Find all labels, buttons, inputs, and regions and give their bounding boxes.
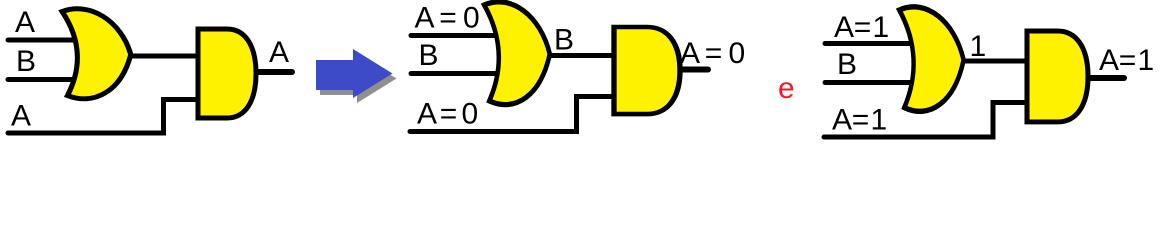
wire B input (circuit 3) (825, 80, 918, 85)
svg-text:A = 1: A = 1 (1099, 44, 1154, 77)
or-gate OR3 (899, 7, 963, 111)
wire OR1 output to AND1 input (127, 54, 200, 59)
svg-text:A: A (11, 100, 31, 133)
and-gate AND1 (198, 29, 256, 118)
svg-text:A = 0: A = 0 (680, 37, 745, 70)
svg-text:A = 0: A = 0 (417, 98, 478, 131)
wire B input (circuit 2) (411, 71, 506, 76)
wire A bottom input to AND1 lower input (8, 100, 200, 134)
svg-text:A = 0: A = 0 (415, 2, 480, 35)
wire AND3 output (1086, 75, 1124, 81)
and-gate AND3 (1027, 31, 1088, 122)
svg-text:B: B (837, 48, 857, 81)
wire A=1 bottom input to AND3 lower input (824, 103, 1030, 138)
wire AND1 output (252, 69, 292, 75)
svg-text:A = 1: A = 1 (834, 11, 889, 44)
wire A=1 top input (circuit 3) (825, 41, 916, 46)
svg-text:e: e (778, 72, 795, 105)
svg-text:B: B (419, 39, 439, 72)
wire A=0 top input (circuit 2) (411, 33, 503, 38)
svg-text:A: A (269, 36, 289, 69)
arrow shadow (320, 54, 397, 103)
svg-text:1: 1 (970, 30, 987, 63)
wire OR2 output (node B) to AND2 input (546, 53, 617, 58)
svg-text:A: A (15, 6, 35, 39)
svg-text:B: B (16, 45, 36, 78)
arrow (316, 49, 393, 98)
svg-text:B: B (554, 24, 574, 57)
wire A top input (circuit 1) (8, 38, 80, 43)
or-gate OR2 (484, 2, 550, 105)
wire A=0 bottom input to AND2 lower input (410, 97, 617, 132)
or-gate OR1 (62, 9, 131, 99)
svg-text:A = 1: A = 1 (832, 104, 887, 137)
and-gate AND2 (614, 27, 680, 114)
wire B input (circuit 1) (8, 77, 80, 82)
wire AND2 output (674, 67, 708, 73)
wire OR3 output (node 1) to AND3 input (958, 59, 1030, 64)
